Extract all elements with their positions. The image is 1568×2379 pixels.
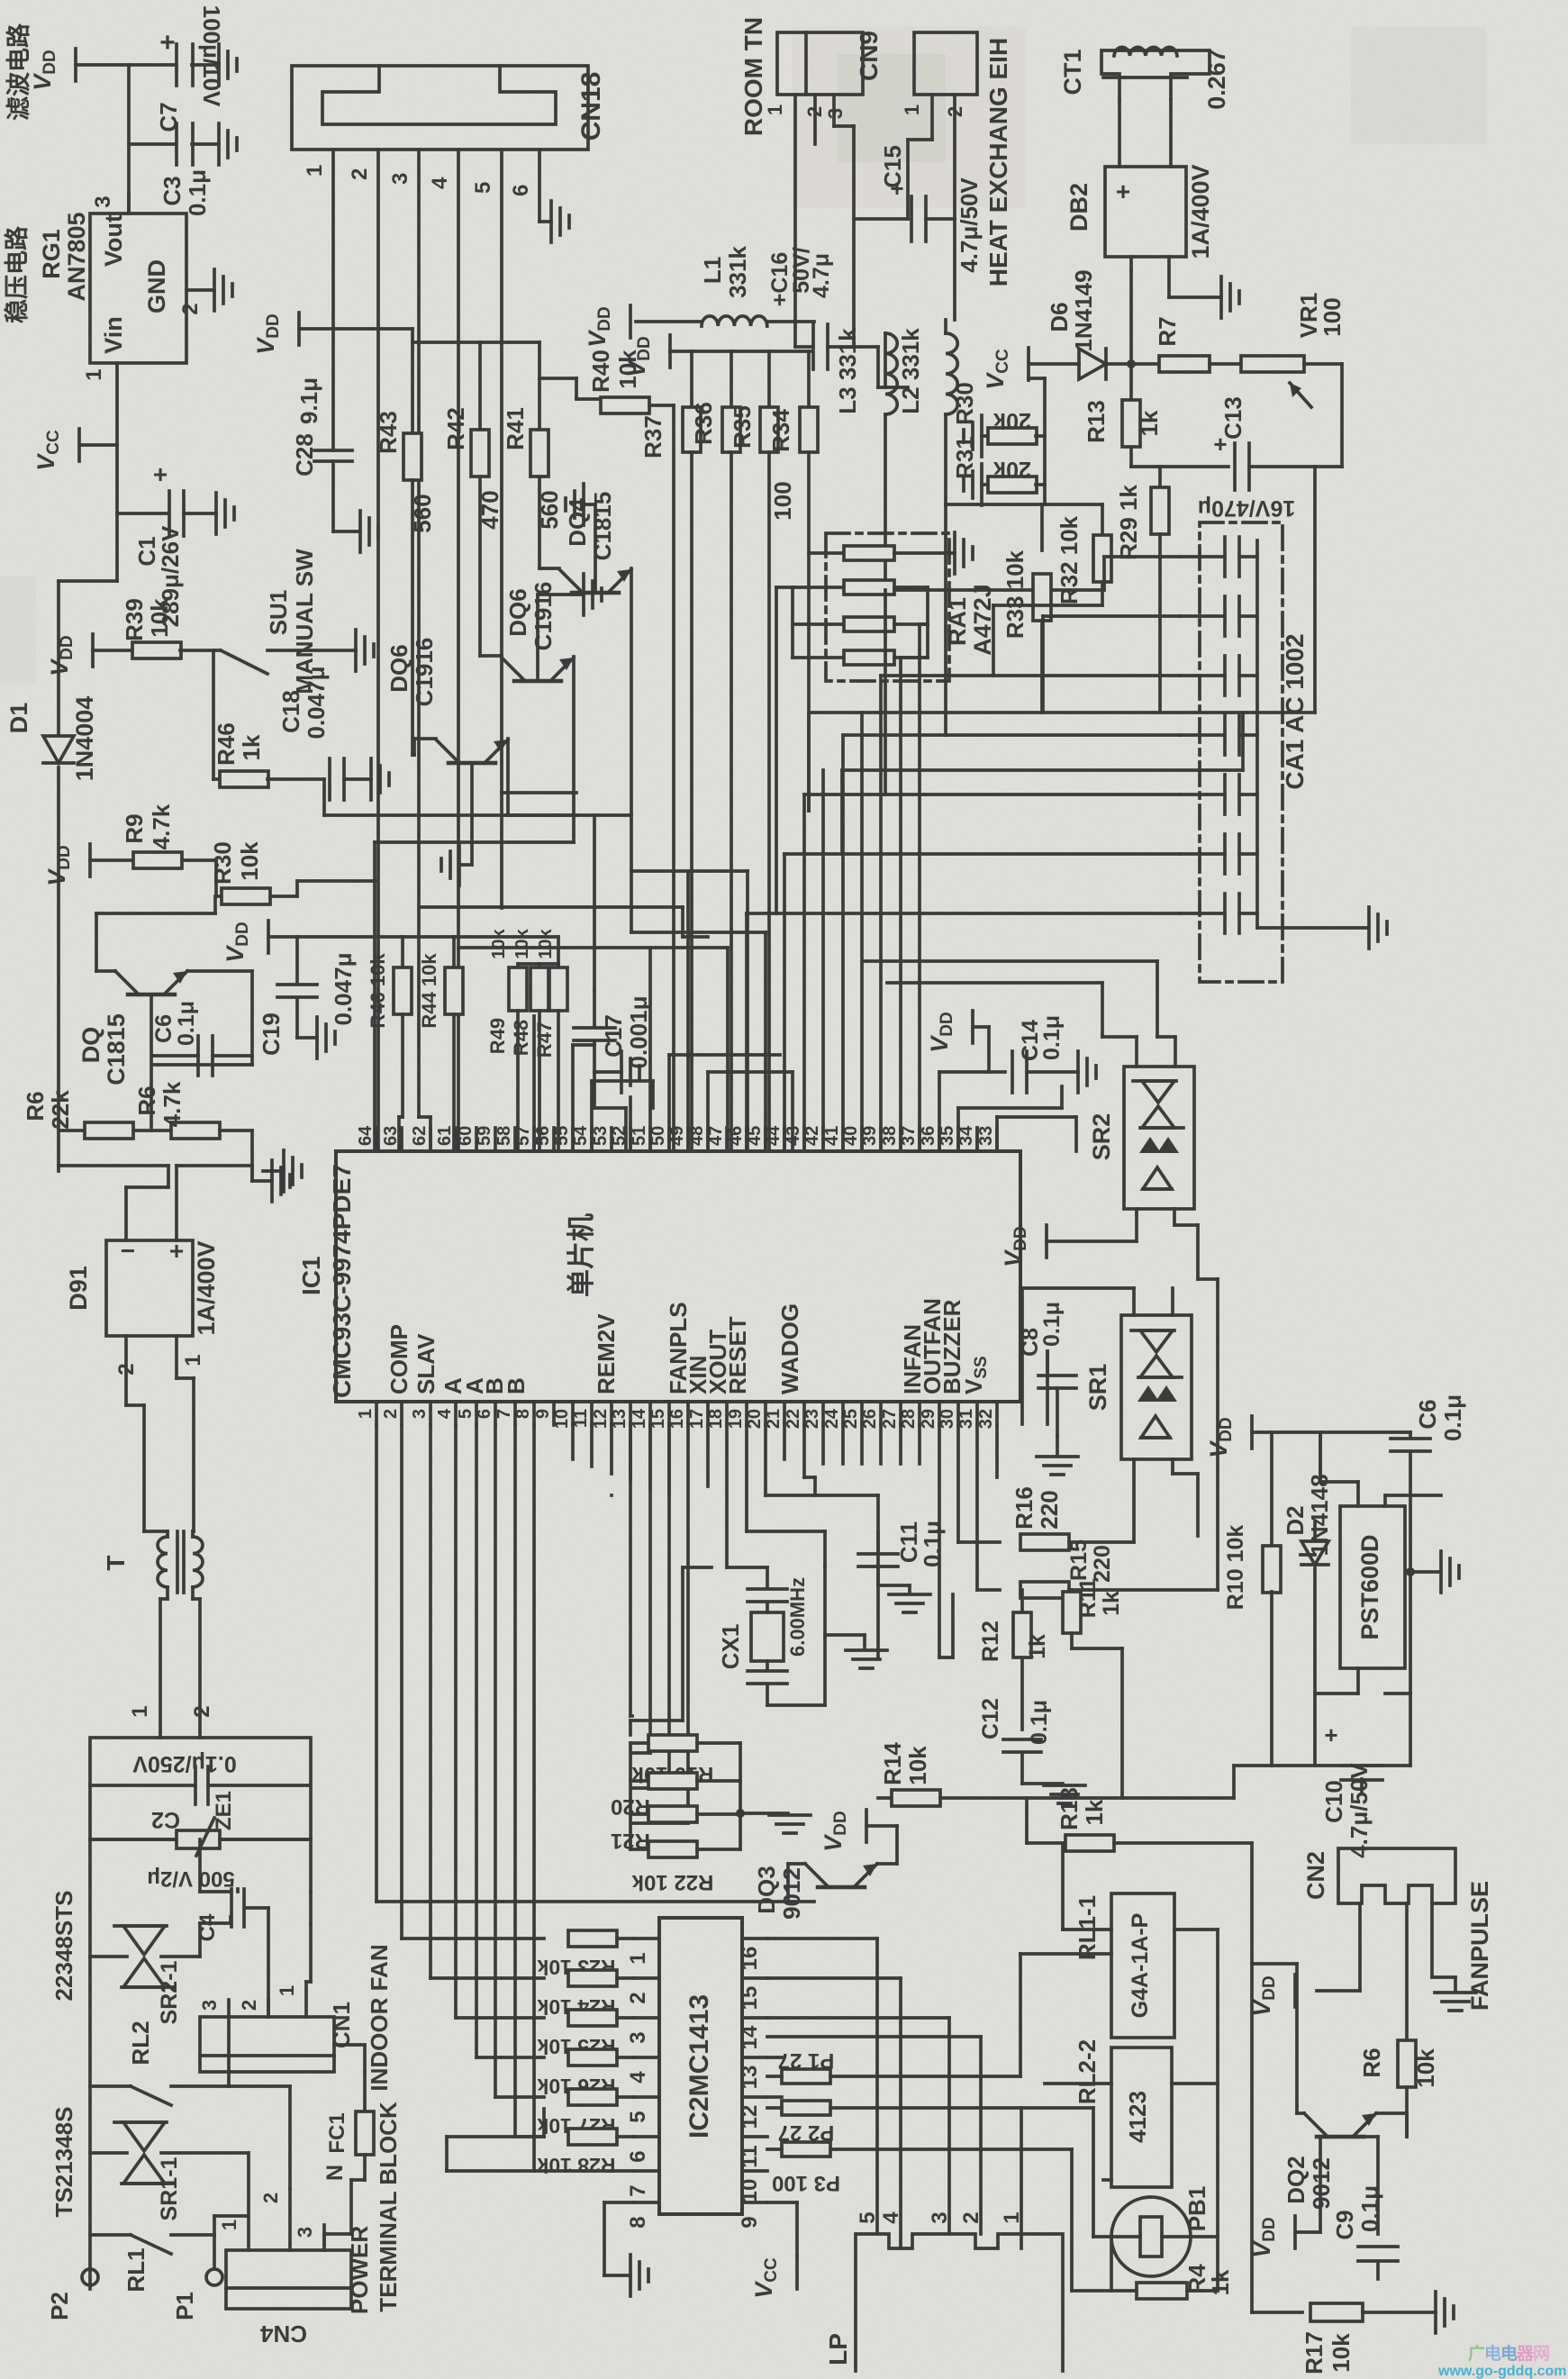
ground xyxy=(1435,1993,1476,2011)
wire DB2 minus xyxy=(1169,257,1221,297)
resistor R31 20k xyxy=(951,436,1045,493)
resistor R6 10k xyxy=(1358,2040,1439,2137)
ground xyxy=(889,1585,930,1612)
RA1 resistor 3 xyxy=(793,617,928,631)
pin 63 xyxy=(381,1126,402,1151)
resistor P1 27 xyxy=(767,2048,1020,2084)
pin 31 xyxy=(956,1402,977,1429)
power VCC net xyxy=(982,348,1079,390)
pin 3 xyxy=(410,1402,431,1425)
resistor R21 xyxy=(611,1806,740,1853)
pin 4 xyxy=(428,150,458,1151)
driver IC2 MC1413 xyxy=(659,1918,742,2214)
connector CN9 ROOM TN xyxy=(739,17,883,136)
wire pin12 stub xyxy=(610,1424,613,1474)
wire VDD rail to pullups xyxy=(297,935,454,939)
wire pin14 stub xyxy=(648,1424,652,1488)
microcontroller IC1 CMC93C-9974PDE7 xyxy=(297,1151,1020,1402)
pin 51 xyxy=(630,1126,650,1151)
label TS21348S xyxy=(50,2107,77,2218)
pin 4 xyxy=(435,1402,456,1425)
wire L3 node xyxy=(885,588,1104,592)
wire tangle above IC pins xyxy=(532,1016,536,1149)
wire DQ2 block frame xyxy=(1252,1964,1297,2104)
wire xyxy=(1198,1277,1218,1281)
pin 19 xyxy=(726,1402,747,1429)
ground xyxy=(441,763,472,885)
resistor R26 10k xyxy=(537,2049,634,2098)
resistor R20 xyxy=(611,1773,740,1819)
pin 62 xyxy=(410,1126,431,1151)
pin 56 xyxy=(533,1126,554,1151)
power VDD net xyxy=(1205,1416,1272,1458)
pin 50 xyxy=(648,1126,669,1151)
diode D1 1N4004 xyxy=(5,696,98,782)
pin 6 xyxy=(475,1402,495,1425)
LP pin 4 xyxy=(879,2211,903,2224)
ground xyxy=(219,123,237,165)
wire D91 bottom pins xyxy=(114,1336,205,1531)
wire pin2 xyxy=(402,1425,544,1939)
pin 18 xyxy=(706,1402,727,1429)
RA1 resistor 1 xyxy=(809,546,955,560)
resistor R29 1k xyxy=(1115,467,1169,713)
power VDD net xyxy=(46,634,133,676)
capacitor C16 50V/4.7u xyxy=(767,247,854,369)
pin 52 xyxy=(610,1126,630,1151)
capacitor C4 wires xyxy=(231,1908,268,2017)
capacitor C18 0.047u xyxy=(277,667,371,800)
triac SR1-1 xyxy=(90,2122,249,2220)
pin 24 xyxy=(822,1402,843,1429)
wire RA1 inputs xyxy=(776,587,793,658)
fuse FC1 xyxy=(322,2072,374,2181)
capacitor C3 0.1u xyxy=(159,123,219,216)
pin 2 xyxy=(381,1402,402,1425)
connector CN9B HEAT EXCHANG EIH xyxy=(914,32,1012,286)
resistor R9 4.7k xyxy=(121,804,216,868)
CA1 capacitor 2 xyxy=(1180,596,1257,636)
current transformer CT1 0.267 xyxy=(1059,47,1230,167)
capacitor C13 16V/470u xyxy=(1198,396,1342,521)
wire VCC to R30/R31 xyxy=(946,378,1045,504)
pin 43 xyxy=(784,1126,804,1151)
pin 1 xyxy=(356,1402,376,1425)
wire pins 36-33 VDD/C14 xyxy=(939,1072,1005,1151)
ground xyxy=(317,1017,335,1058)
wire pin29 xyxy=(939,1424,953,1657)
pin 30 xyxy=(938,1402,958,1429)
wire xyxy=(1045,503,1102,506)
terminal P2 xyxy=(46,2269,98,2320)
wire P1 riser to RL1 xyxy=(1020,1954,1111,2076)
wire row13 to LP2 xyxy=(767,2037,981,2234)
wire pin23 stub xyxy=(821,1424,825,1464)
ground xyxy=(955,532,973,574)
connector CN1 INDOOR FAN xyxy=(200,1944,393,2091)
wire pin3 xyxy=(431,1425,544,1978)
relay RL2 switch xyxy=(90,2017,229,2105)
ground xyxy=(1406,1551,1459,1593)
resistor R25 10k xyxy=(537,2010,634,2058)
wire pin30 INFAN xyxy=(958,1425,1000,1542)
wire relay inputs xyxy=(1045,1843,1111,2180)
wire pin21 WADOG xyxy=(783,1424,786,1459)
wire xyxy=(1385,1572,1410,1693)
wire pin13 route xyxy=(630,1424,632,1716)
potentiometer VR1 100 xyxy=(1241,293,1346,467)
pin 21 xyxy=(764,1402,784,1429)
switch SU1 MANUAL SW xyxy=(221,549,356,695)
power VDD net xyxy=(252,313,333,355)
ground xyxy=(214,269,232,311)
resistor R48 10k xyxy=(510,928,548,1149)
wire horizontal bus y967 xyxy=(631,871,748,1149)
transformer T xyxy=(102,1531,203,1593)
resistor R6 22k xyxy=(22,1090,151,1139)
wire R18 to R17 spine xyxy=(1250,1843,1254,2312)
pin 27 xyxy=(880,1402,901,1429)
resistor R46 1k xyxy=(213,722,324,787)
pin 2 xyxy=(803,95,826,144)
power VDD net xyxy=(1248,2137,1340,2258)
pin 59 xyxy=(475,1126,495,1151)
pin 3 xyxy=(388,150,431,1151)
transistor DQ3 9012 xyxy=(753,1864,877,1920)
capacitor C4 xyxy=(195,1839,244,1941)
CN4 pins xyxy=(218,2189,324,2250)
wire pin13 stub xyxy=(629,1424,632,1481)
ground xyxy=(1037,1437,1078,1475)
ground left of IC1 xyxy=(263,1150,302,1192)
pin 34 xyxy=(956,1125,977,1151)
IC2 left pins 1-8 xyxy=(626,1939,659,1965)
RA1 resistor 2 xyxy=(793,580,928,658)
wire pin22 xyxy=(804,1424,815,1495)
wire pin15 stub xyxy=(667,1424,671,1495)
wire PST600D xyxy=(1315,1432,1441,1693)
power VDD net xyxy=(1248,1975,1295,2017)
pin 41 xyxy=(822,1126,843,1151)
wire SR1-1 to CN4 net xyxy=(214,2086,290,2216)
label 稳压电路 (regulator) xyxy=(3,225,31,323)
pin 6 to ground xyxy=(509,150,551,222)
wire bus y1008b xyxy=(500,793,503,908)
pin 39 xyxy=(860,1126,881,1151)
CN2 wires xyxy=(1317,1903,1455,2040)
ground xyxy=(538,574,602,681)
inductor L2 331k xyxy=(897,320,957,504)
pin 61 xyxy=(435,1126,456,1151)
CA1 capacitor 3 xyxy=(1180,656,1257,695)
wire VDD2 rail xyxy=(454,937,558,964)
wire xyxy=(57,767,60,1171)
pin 53 xyxy=(591,1126,612,1151)
ground xyxy=(360,511,378,552)
resistor array RA1 A472J (dash-dot box) xyxy=(826,533,996,681)
resistor R33 10k xyxy=(1002,504,1051,713)
pin 2 xyxy=(944,95,966,320)
resistor R30b 10k xyxy=(209,841,297,904)
pin 23 xyxy=(802,1402,823,1429)
pin 10 xyxy=(552,1402,573,1429)
pin 15 xyxy=(648,1402,669,1429)
pin 11 xyxy=(571,1402,592,1428)
pin 54 xyxy=(571,1125,592,1151)
pin 3 xyxy=(91,194,129,213)
wire node xyxy=(324,779,576,815)
pin 60 xyxy=(456,1126,476,1151)
wire R30 row to right xyxy=(297,881,376,896)
wire pin7 xyxy=(515,1425,544,2137)
wire junction xyxy=(1127,270,1136,400)
wire xyxy=(213,650,221,779)
ground xyxy=(219,44,237,86)
resistor R45 10k xyxy=(367,937,412,1149)
pin 14 xyxy=(630,1402,650,1429)
wire IC2 pin15 to LP4 xyxy=(767,1978,901,2248)
wire D91 top pins xyxy=(126,1166,252,1240)
wire pin19 XOUT xyxy=(747,1425,825,1567)
power VDD net (filter) xyxy=(29,49,129,91)
power VDD net xyxy=(222,921,297,963)
pin 49 xyxy=(667,1126,688,1151)
wire T secondary down xyxy=(128,1587,214,1738)
wire xyxy=(214,860,218,896)
resistor 100 (R33 input) xyxy=(769,351,818,811)
resistor R24 10k xyxy=(537,1970,634,2019)
CA1 capacitor 4 xyxy=(1180,715,1257,755)
CN1 pins xyxy=(198,1982,311,2017)
pin 44 xyxy=(764,1125,784,1151)
opto triac SR2 xyxy=(1088,1067,1194,1209)
ground xyxy=(1221,277,1239,318)
pin 9 xyxy=(533,1402,554,1425)
CA1 capacitor 7 xyxy=(1180,894,1257,933)
pin 58 xyxy=(494,1126,515,1151)
relay coil RL1-1 G4A-1A-P xyxy=(1074,1893,1174,2038)
power VCC net xyxy=(750,2256,797,2299)
relay RL1 switch xyxy=(90,2216,214,2293)
wire P3 to R4 rail xyxy=(1072,2149,1111,2291)
wire pin9 VCC xyxy=(767,2202,797,2256)
crystal CX1 6.00MHz xyxy=(717,1567,865,1705)
wire long return xyxy=(1234,1766,1272,1798)
pin 29 xyxy=(919,1402,939,1429)
wire CN18 pin1 down xyxy=(331,150,335,450)
ground xyxy=(356,630,374,671)
capacitor C19 0.047u xyxy=(258,937,357,1056)
pin 26 xyxy=(860,1402,881,1429)
pin 36 xyxy=(919,1126,939,1151)
wire xyxy=(129,142,177,146)
pin 1 wire xyxy=(82,363,117,581)
wire grid horizontals into CA1 xyxy=(1104,557,1180,590)
wire xyxy=(117,512,168,515)
pin 45 xyxy=(745,1126,766,1151)
pin 57 xyxy=(513,1126,534,1151)
pin 20 xyxy=(745,1402,766,1429)
RA1 resistor 4 xyxy=(793,650,928,665)
resistor R47 10k xyxy=(533,928,567,1149)
wire pin32 BUZZER xyxy=(995,1425,999,1477)
wire xyxy=(129,65,177,213)
CA1 capacitor 1 xyxy=(1180,537,1257,577)
CA1 common line xyxy=(1257,540,1369,928)
wire xyxy=(333,461,360,531)
resistor R42 470 xyxy=(442,342,503,656)
transistor DQ6 C1916 (lower) xyxy=(385,638,508,815)
resistor R14 10k xyxy=(878,1742,1234,1806)
pin 13 xyxy=(610,1402,630,1429)
transistor DQ6 C1916 (middle) xyxy=(480,582,574,815)
pin 12 xyxy=(591,1402,612,1429)
power VDD net 2 xyxy=(623,335,811,377)
capacitor C14 0.1u xyxy=(1012,1015,1078,1093)
regulator RG1 AN7805 xyxy=(38,212,186,363)
diode D6 1N4149 xyxy=(1046,269,1131,379)
wire base loop xyxy=(96,896,215,971)
wire pin16 route xyxy=(632,1424,688,1823)
pin 5 xyxy=(456,1402,476,1425)
wire pin6 xyxy=(495,1425,544,2097)
pin 25 xyxy=(841,1402,862,1429)
power VDD net xyxy=(926,1011,989,1072)
connector LP xyxy=(824,2234,1063,2371)
resistor R18 1k xyxy=(1027,1787,1252,1851)
wire verticals right tangle xyxy=(993,605,1102,676)
ground xyxy=(371,758,389,800)
pin 33 xyxy=(976,1126,997,1151)
resistor R41 560 xyxy=(502,342,563,568)
opto triac SR1 xyxy=(1022,1288,1192,1459)
wire pin28 stub xyxy=(918,1424,921,1464)
wire DB2 plus down xyxy=(1129,257,1133,270)
resistor R11 1k xyxy=(1063,1578,1124,1798)
pin 28 xyxy=(899,1402,920,1429)
LP pin 1 xyxy=(1000,2211,1024,2223)
wire pin15 route xyxy=(632,1424,669,1788)
ground xyxy=(964,415,982,457)
ground xyxy=(621,1051,639,1093)
wire R19-R22 commons xyxy=(630,1743,776,1849)
ground xyxy=(566,484,595,593)
capacitor C28 9.1u xyxy=(291,377,352,477)
capacitor array CA1 AC 1002 (dash-dot box) xyxy=(1200,522,1309,982)
wire horizontal bus y935 xyxy=(375,842,574,1149)
LP pin 2 xyxy=(959,2211,983,2223)
terminal P1 xyxy=(171,2235,222,2320)
ground xyxy=(1078,1051,1096,1093)
diode D2 1N4148 xyxy=(1282,1474,1333,1766)
wire xyxy=(1131,465,1228,468)
capacitor C1 289u/26V xyxy=(133,460,216,627)
ground xyxy=(1369,907,1387,949)
resistor P2 27 xyxy=(767,2097,1093,2145)
LP pin 5 xyxy=(856,2211,880,2223)
ground crystal xyxy=(846,1635,887,1668)
pin 1 xyxy=(764,95,795,322)
resistor R15 220 xyxy=(1020,1539,1218,1598)
ground xyxy=(769,1813,811,1833)
inductor L1 331k xyxy=(636,246,814,326)
wire pin4 xyxy=(456,1425,544,2018)
transistor DQ C1815 xyxy=(77,971,187,1085)
wire left rail down xyxy=(88,1839,92,2289)
pin 3 xyxy=(824,95,854,347)
wire N down xyxy=(324,2180,365,2250)
resistor P3 100 xyxy=(767,2142,1072,2195)
wire pin27 stub xyxy=(899,1424,902,1464)
wire to D1 xyxy=(59,581,117,735)
wire pin5 xyxy=(476,1425,544,2057)
transistor DQ2 9012 xyxy=(1282,2104,1407,2210)
pin 48 xyxy=(687,1126,708,1151)
pin 22 xyxy=(784,1402,804,1429)
wire pin12 REM2V xyxy=(610,1494,613,1497)
pin 8 xyxy=(513,1402,534,1425)
resistor R13 1k xyxy=(1083,400,1163,467)
wire CN1 to FC1 xyxy=(334,2045,365,2072)
wire P2 to buzzer rail xyxy=(1093,2108,1111,2237)
wire pin20 RESET xyxy=(766,1424,878,1657)
wire relay commons xyxy=(1172,1930,1218,2291)
wire R37 xyxy=(639,405,674,1149)
ground xyxy=(216,493,234,534)
capacitor C6 0.1u xyxy=(151,1001,252,1076)
resistor R36 100 xyxy=(683,351,717,1149)
capacitor C12 0.1u xyxy=(978,1698,1063,1784)
capacitor C17 0.001u xyxy=(574,991,652,1072)
wire pin11 stub xyxy=(590,1424,594,1466)
varistor ZE1 500V/2u xyxy=(90,1791,311,1891)
resistor R28 10k xyxy=(537,2129,634,2177)
wire bus CN18p4 xyxy=(458,948,728,1151)
pin 64 xyxy=(356,1125,376,1151)
reset IC PST600D xyxy=(1340,1506,1405,1668)
wire VDD rail xyxy=(1272,1432,1410,1477)
pin 2 to ground xyxy=(178,290,214,315)
wire pin8 row xyxy=(447,1425,634,2171)
pin 17 xyxy=(687,1402,708,1429)
resistor R12 1k xyxy=(978,1590,1050,1730)
pin 5 xyxy=(471,150,576,793)
label 22348STS xyxy=(50,1891,77,2002)
bridge rectifier DB2 1A/400V xyxy=(1065,164,1214,259)
connector CN18 xyxy=(292,66,606,150)
wire R9 row xyxy=(43,844,133,886)
wire SR2 feeds xyxy=(865,961,1175,1067)
ground xyxy=(551,201,569,242)
ground xyxy=(272,1160,290,1202)
wire pin17/18 XIN xyxy=(706,1425,710,1486)
pin 46 xyxy=(726,1126,747,1151)
resistor R10 10k xyxy=(1223,1432,1281,1766)
capacitor C2 xyxy=(90,1766,311,1832)
wire emitter xyxy=(150,994,153,1130)
wire SR1 bottom legs xyxy=(1134,1459,1198,1542)
resistor R30 20k xyxy=(951,382,1045,444)
ground xyxy=(1044,1785,1085,1803)
pin 32 xyxy=(976,1402,997,1429)
resistor R23 10k xyxy=(537,1930,634,1979)
triac SR2-1 xyxy=(90,1923,231,2024)
resistor R49 10k xyxy=(486,928,527,1149)
capacitor C15 4.7u/50V xyxy=(854,145,983,273)
ground xyxy=(630,2255,648,2296)
capacitor C11 0.1u xyxy=(858,1521,946,1585)
ground xyxy=(964,464,982,505)
